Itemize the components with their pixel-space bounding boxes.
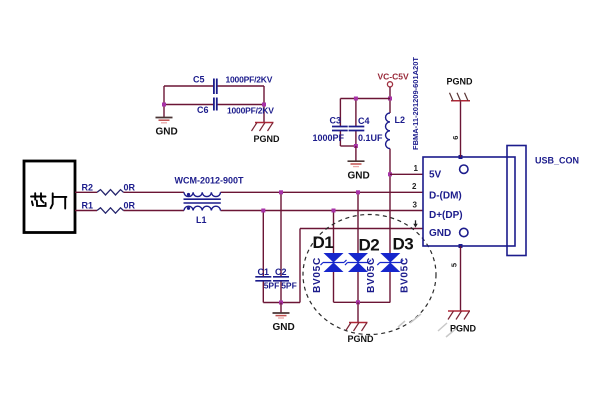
svg-text:BV05C: BV05C (366, 257, 377, 293)
svg-text:VC-C5V: VC-C5V (378, 72, 410, 82)
svg-text:BV05C: BV05C (400, 257, 411, 293)
svg-text:6: 6 (451, 136, 460, 140)
ground GND left (156, 118, 178, 138)
svg-text:0R: 0R (124, 201, 136, 211)
svg-text:GND: GND (156, 127, 178, 138)
connector pin5 square (459, 244, 463, 248)
wire left vertical to GND (163, 86, 165, 118)
capacitor C6 value (227, 106, 274, 116)
ground PGND bottom right (448, 311, 477, 334)
svg-text:PGND: PGND (348, 334, 375, 344)
svg-text:C2: C2 (275, 267, 287, 277)
svg-text:L1: L1 (196, 215, 207, 225)
connector pin6 square (459, 155, 463, 159)
capacitor C5 (214, 79, 217, 95)
svg-text:WCM-2012-900T: WCM-2012-900T (175, 176, 245, 186)
capacitor C6 label (197, 105, 209, 115)
diode D3 label (393, 235, 414, 254)
svg-text:C6: C6 (197, 105, 209, 115)
wire C3 C4 bottom bus (340, 145, 356, 147)
connector USB_CON box (423, 157, 515, 246)
pin number 5 rotated (449, 263, 458, 267)
inductor L1 common-mode choke (184, 192, 221, 210)
svg-text:PGND: PGND (450, 324, 477, 334)
svg-text:1: 1 (414, 164, 419, 173)
svg-text:3: 3 (413, 201, 418, 210)
svg-text:0.1UF: 0.1UF (358, 133, 383, 143)
node junction C6-GND (162, 103, 166, 107)
diode D2 label (359, 236, 380, 255)
connector USB_CON label (535, 156, 579, 166)
wire pin6 to PGND (460, 101, 462, 157)
pin number 2 (412, 182, 417, 191)
node junction D2 / D- (356, 190, 360, 194)
node junction C2 / D- (279, 190, 283, 194)
svg-text:PGND: PGND (254, 134, 281, 144)
inductor L2 part number vertical (411, 57, 420, 150)
capacitor C2 (273, 192, 297, 302)
inductor L1 part number (175, 176, 245, 186)
diode D3 value BV05C (400, 257, 411, 293)
inductor L1 label (196, 215, 207, 225)
diode D3 TVS (377, 253, 403, 272)
chip text 芯片 (31, 193, 66, 208)
node junction GND bus stem (279, 301, 283, 305)
diode D1 label (313, 233, 334, 252)
inductor L2 ferrite bead (386, 113, 390, 149)
svg-text:5V: 5V (429, 170, 442, 181)
diode D2 TVS (345, 192, 371, 302)
svg-text:GND: GND (348, 171, 370, 182)
connector pin name 5V (429, 170, 442, 181)
svg-text:5: 5 (449, 263, 458, 267)
svg-text:BV05C: BV05C (312, 257, 323, 293)
capacitor C4 (349, 99, 383, 147)
svg-text:D2: D2 (359, 236, 380, 255)
svg-text:D3: D3 (393, 235, 414, 254)
svg-text:R2: R2 (82, 182, 94, 192)
wire GND pin4 horizontal (300, 228, 423, 230)
pin number 6 rotated (451, 136, 460, 140)
wire VCC vertical (389, 87, 391, 302)
connector pin name D+(DP) (429, 210, 463, 221)
svg-text:GND: GND (429, 228, 451, 239)
pin number 4 arrow (413, 220, 417, 227)
svg-text:C5: C5 (193, 75, 205, 85)
wire pin5 to PGND (460, 246, 462, 311)
diode D1 TVS (321, 211, 347, 303)
svg-text:1000PF: 1000PF (313, 133, 345, 143)
pin number 3 (413, 201, 418, 210)
svg-text:0R: 0R (124, 182, 136, 192)
diode D2 value BV05C (366, 257, 377, 293)
svg-text:GND: GND (273, 322, 295, 333)
node junction C4 top (354, 97, 358, 101)
wire C3 C4 top bus (340, 98, 390, 100)
pin number 1 (414, 164, 419, 173)
wire PGND bus under diodes (334, 301, 391, 303)
wire C5 top net (164, 85, 264, 87)
svg-text:1000PF/2KV: 1000PF/2KV (227, 106, 274, 116)
svg-text:USB_CON: USB_CON (535, 156, 579, 166)
dashed ESD group ellipse (303, 215, 436, 335)
wire C6 mid net (164, 104, 264, 106)
ground GND middle (348, 146, 370, 182)
svg-text:L2: L2 (395, 115, 406, 125)
svg-text:D1: D1 (313, 233, 334, 252)
node junction C6-PGND (262, 103, 266, 107)
node junction VCC / C3C4 (388, 97, 392, 101)
inductor L2 label (395, 115, 406, 125)
ground PGND bottom middle (346, 302, 375, 344)
wire D- line (75, 191, 423, 193)
node junction C4 bottom stem (354, 144, 358, 148)
node junction C1 / D+ (261, 209, 265, 213)
svg-text:C3: C3 (330, 116, 342, 126)
chip box U? (24, 161, 75, 233)
svg-text:5PF: 5PF (264, 281, 280, 291)
svg-text:R1: R1 (82, 201, 94, 211)
connector pin name D-(DM) (429, 191, 462, 202)
capacitor C5 value (226, 75, 273, 85)
ground GND under C1 C2 (273, 303, 295, 334)
svg-text:5PF: 5PF (281, 281, 297, 291)
node junction D1 / D+ (332, 209, 336, 213)
wire right vertical to PGND (263, 86, 265, 123)
capacitor C1 (255, 211, 279, 303)
dashed grey arc fragments (398, 314, 458, 337)
wire D+ line (75, 210, 423, 212)
ground PGND top-left (252, 123, 281, 145)
node junction PGND bus stem (356, 300, 360, 304)
wire pin1 5V (390, 173, 423, 175)
wire GND bus under C1 C2 (263, 302, 300, 304)
connector mounting hole bottom (460, 228, 468, 236)
svg-text:C1: C1 (258, 267, 270, 277)
svg-text:C4: C4 (358, 116, 370, 126)
svg-text:2: 2 (412, 182, 417, 191)
diode D1 value BV05C (312, 257, 323, 293)
power VC-C5V terminal (378, 72, 410, 87)
svg-text:D+(DP): D+(DP) (429, 210, 463, 221)
connector pin name GND (429, 228, 451, 239)
svg-text:1000PF/2KV: 1000PF/2KV (226, 75, 273, 85)
svg-text:FBMA-11-201209-601A20T: FBMA-11-201209-601A20T (411, 57, 420, 150)
resistor R2 (82, 182, 136, 195)
capacitor C3 (313, 99, 348, 147)
connector mounting hole top (460, 165, 468, 173)
capacitor C5 label (193, 75, 205, 85)
resistor R1 (82, 201, 136, 214)
capacitor C6 (214, 98, 217, 111)
ground PGND top right (447, 77, 474, 101)
connector USB_CON shield tab (507, 146, 526, 256)
node junction VCC / pin1 (388, 172, 392, 176)
svg-text:PGND: PGND (447, 77, 474, 87)
wire GND net riser to pin4 line (299, 229, 301, 303)
svg-text:D-(DM): D-(DM) (429, 191, 462, 202)
